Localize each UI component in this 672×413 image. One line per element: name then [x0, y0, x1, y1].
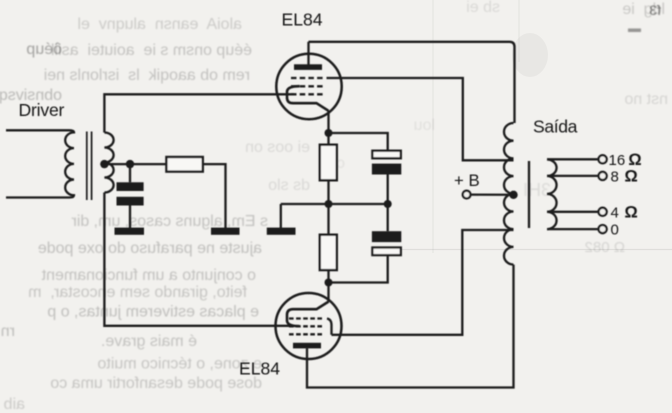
label EL84 (V1): [282, 9, 323, 29]
label 0: [611, 222, 619, 239]
V1 suppressor grid g3: [291, 77, 323, 79]
V2 suppressor grid g3: [289, 333, 322, 335]
transformer T2 "Saida" primary winding: [504, 123, 514, 265]
capacitor C1 (coupling, top): [372, 151, 401, 204]
svg-text:aib ob: aib ob: [0, 396, 25, 413]
wire: top rail (V1 anode to T2 primary top): [309, 42, 515, 123]
wire: node B rail: [281, 203, 388, 205]
label 8 ohm: [611, 167, 638, 185]
svg-text:e placas estiverem juntas, o p: e placas estiverem juntas, o p: [47, 304, 259, 321]
resistor R1: [320, 133, 337, 204]
wire: node A to C1 top: [329, 133, 388, 151]
node: T1 centre-tap junction dot: [100, 160, 108, 168]
terminal 4 ohm: [547, 208, 607, 216]
capacitor C2 (coupling, bottom): [329, 204, 402, 283]
svg-text:sb ei: sb ei: [466, 0, 500, 16]
svg-text:dose pode desanfortir uma co: dose pode desanfortir uma co: [50, 375, 262, 392]
V1 anode plate: [294, 64, 322, 70]
svg-text:ds slo: ds slo: [268, 177, 310, 194]
svg-text:ei oos on: ei oos on: [245, 139, 310, 156]
wire: V2 screen grid to T2 lower UL tap: [332, 230, 514, 335]
V1 cathode: [287, 86, 329, 111]
V1 screen grid g2: [291, 85, 323, 87]
svg-text:é mais grave.: é mais grave.: [101, 333, 197, 350]
svg-text:rem ob aaoqik ls isrlonls ne: rem ob aaoqik ls isrlonls nei: [44, 67, 250, 84]
transformer T2 secondary winding: [547, 160, 557, 230]
wire: T1 secondary top to V1 control grid: [104, 94, 294, 132]
V2 grid elbow to screen lead: [327, 319, 332, 335]
label 4 ohm: [611, 203, 638, 221]
wire: V1 screen grid to T2 UL tap: [327, 78, 514, 160]
wire: T1 centre tap to R3: [104, 163, 166, 165]
svg-text:+ B: + B: [454, 171, 480, 190]
svg-text:ééup onsm s ie aoiutei asiil: ééup onsm s ie aoiutei asiil: [51, 42, 252, 59]
ground (R3): [211, 228, 240, 235]
svg-text:o conjunto a um funcionament: o conjunto a um funcionament: [41, 267, 256, 284]
svg-text:16 Ω: 16 Ω: [609, 151, 642, 169]
svg-text:EL84: EL84: [239, 359, 280, 379]
terminal 8 ohm: [547, 172, 607, 180]
label EL84 (V2): [239, 359, 280, 379]
V2 cathode: [287, 302, 329, 327]
node C junction dot: [325, 279, 333, 287]
svg-text:0: 0: [611, 222, 619, 239]
svg-text:s Em, alguns casos, um, dir: s Em, alguns casos, um, dir: [71, 213, 268, 230]
tube V2 EL84 envelope (bottom): [276, 293, 342, 359]
node: C3 tap junction dot: [126, 160, 134, 168]
label 16 ohm: [609, 151, 642, 169]
node A junction dot: [325, 129, 333, 137]
transformer T1 secondary winding: [104, 133, 113, 193]
wire: node C to V2 cathode: [327, 283, 329, 303]
svg-text:Ω 082: Ω 082: [585, 239, 625, 256]
terminal 16 ohm: [547, 155, 607, 163]
svg-text:Saída: Saída: [533, 116, 578, 136]
wire: V1 cathode lead to node A: [327, 111, 329, 134]
ground (node B): [267, 228, 296, 235]
svg-text:nst no: nst no: [624, 91, 668, 108]
capacitor C3 (driver bias): [117, 164, 144, 228]
+B supply terminal: [463, 191, 514, 199]
wire: T1 secondary bottom to V2 control grid: [104, 193, 294, 326]
svg-text:rn: rn: [1, 323, 15, 340]
resistor R3: [166, 157, 225, 228]
V2 control grid g1: [289, 317, 322, 319]
svg-text:lou: lou: [414, 117, 435, 134]
svg-text:e zone, o técnico muito: e zone, o técnico muito: [97, 356, 262, 373]
terminal 0 ohm: [547, 225, 607, 233]
svg-text:8 Ω: 8 Ω: [611, 167, 638, 185]
V2 screen grid g2: [289, 325, 322, 327]
V2 anode plate: [293, 343, 321, 349]
svg-text:Driver: Driver: [19, 100, 65, 120]
svg-text:3HI: 3HI: [523, 180, 551, 200]
node: +B tap junction dot: [509, 191, 517, 199]
label Driver: [19, 100, 65, 120]
wire: V2 anode to T2 primary bottom: [307, 265, 514, 388]
wire: node B to ground: [280, 204, 282, 228]
transformer T2 core: [528, 161, 530, 228]
label +B: [454, 171, 480, 190]
node B junction dot: [325, 200, 333, 208]
svg-text:aloiA eansn aluqnv el: aloiA eansn aluqnv el: [77, 16, 242, 33]
svg-text:f3: f3: [649, 2, 661, 18]
svg-text:ajuste ne parafuso do oxe pode: ajuste ne parafuso do oxe pode: [38, 240, 262, 257]
resistor R2: [320, 204, 337, 283]
V1 control grid g1: [291, 93, 323, 95]
wire: V1 anode lead: [307, 42, 309, 65]
svg-text:feito, girando sem encostar,: feito, girando sem encostar, m: [28, 284, 247, 301]
svg-text:4 Ω: 4 Ω: [611, 203, 638, 221]
node: C1/C2 junction dot: [384, 200, 392, 208]
tube V1 EL84 envelope (top): [276, 54, 341, 119]
svg-text:ôéup: ôéup: [26, 41, 62, 58]
ground (C3): [115, 228, 145, 235]
transformer T1 "Driver" primary winding: [6, 130, 74, 197]
label Saida: [533, 116, 578, 136]
transformer T1 core: [87, 132, 92, 201]
svg-text:EL84: EL84: [282, 9, 323, 29]
